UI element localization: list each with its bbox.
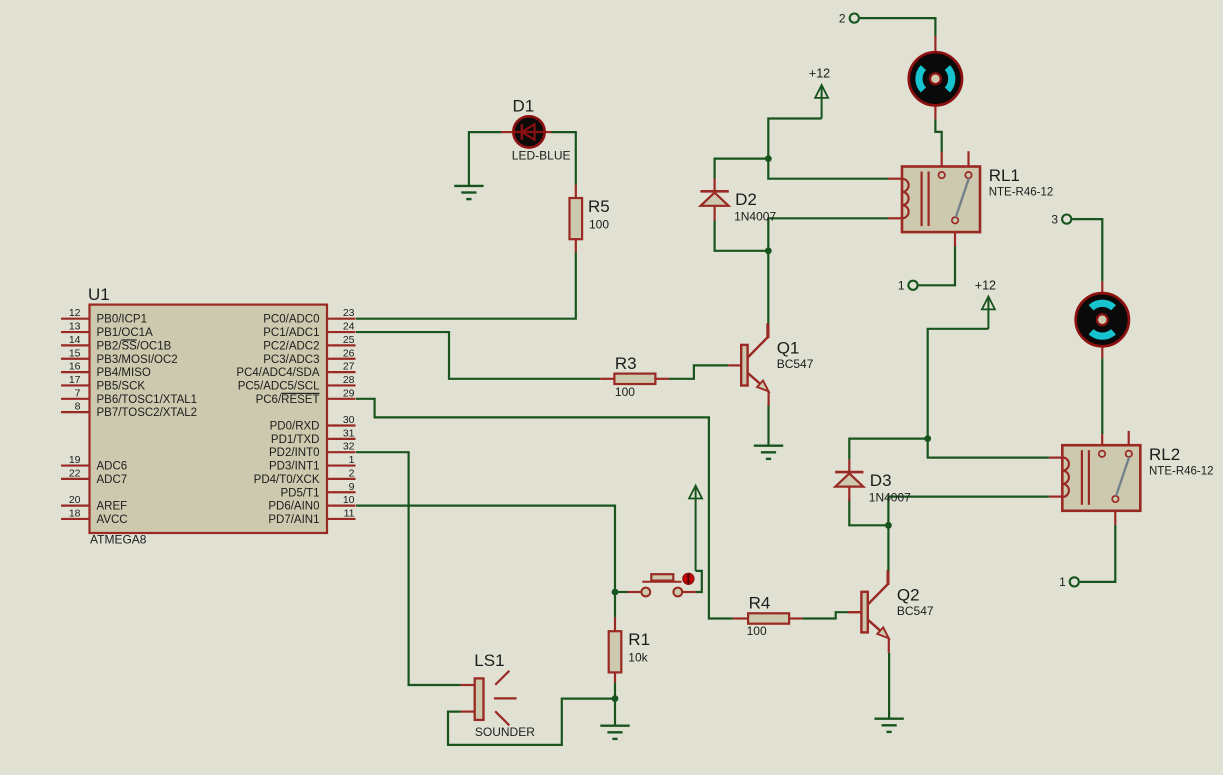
svg-text:12: 12	[69, 307, 81, 319]
svg-text:28: 28	[343, 374, 355, 386]
sounder LS1	[474, 651, 535, 739]
wire motor M2 bottom to RL2 pole	[1101, 358, 1103, 434]
U1 right pin 24	[263, 321, 355, 340]
U1 right pin 30	[270, 414, 356, 433]
svg-text:PC0/ADC0: PC0/ADC0	[263, 314, 319, 326]
svg-text:PD7/AIN1: PD7/AIN1	[268, 514, 319, 526]
svg-text:32: 32	[343, 441, 355, 453]
wire PD2 pin32 to sounder LS1	[356, 452, 461, 685]
RL2 common bottom stub	[1114, 502, 1116, 525]
wire R1 bottom to junction	[614, 683, 616, 699]
junction button/R1/PD6	[612, 589, 619, 596]
svg-text:PB7/TOSC2/XTAL2: PB7/TOSC2/XTAL2	[97, 407, 198, 419]
svg-text:25: 25	[343, 334, 355, 346]
svg-text:PB0/ICP1: PB0/ICP1	[97, 314, 148, 326]
wire RL2 common to terminal 1	[1080, 525, 1116, 582]
svg-text:PC4/ADC4/SDA: PC4/ADC4/SDA	[236, 367, 319, 379]
Q1 collector stub	[767, 324, 769, 338]
svg-text:26: 26	[343, 347, 355, 359]
svg-text:7: 7	[75, 387, 81, 399]
svg-text:PB3/MOSI/OC2: PB3/MOSI/OC2	[97, 354, 178, 366]
R3 pin stubs	[600, 378, 669, 380]
svg-text:10k: 10k	[628, 650, 648, 664]
svg-text:8: 8	[75, 401, 81, 413]
svg-text:PB2/SS/OC1B: PB2/SS/OC1B	[97, 340, 172, 352]
Q1 base stub	[728, 364, 741, 366]
diode D2	[700, 179, 776, 224]
U1 right pin 10	[268, 494, 355, 512]
U1 right pin 28	[238, 374, 356, 393]
wire node D to RL2 coil bottom	[888, 497, 1049, 526]
U1 left pin 17 PB5/SCK	[61, 374, 145, 393]
U1 left pin 20 AREF	[61, 494, 127, 512]
svg-text:PD4/T0/XCK: PD4/T0/XCK	[254, 474, 320, 486]
U1 right pin 26	[263, 347, 355, 366]
wire LED D1 cathode to ground	[469, 132, 501, 186]
svg-text:18: 18	[69, 507, 81, 519]
svg-text:16: 16	[69, 361, 81, 373]
U1 right pin 1	[269, 454, 356, 473]
terminal 2	[839, 11, 859, 25]
svg-text:SOUNDER: SOUNDER	[475, 725, 535, 739]
svg-text:PD3/INT1: PD3/INT1	[269, 461, 320, 473]
svg-text:19: 19	[69, 454, 81, 466]
button interactive marker	[683, 573, 694, 584]
svg-text:27: 27	[343, 361, 355, 373]
wire D2 anode to node B	[715, 220, 769, 251]
svg-text:24: 24	[343, 321, 355, 333]
U1 left pin 13 PB1/OC1A	[61, 321, 153, 340]
svg-text:2: 2	[349, 467, 355, 479]
wire node B to RL1 coil bottom	[768, 218, 888, 251]
diode D3	[835, 459, 911, 504]
svg-text:BC547: BC547	[777, 357, 814, 371]
svg-text:3: 3	[1051, 212, 1058, 226]
wire PD6 pin10 to node button/R1	[356, 506, 615, 592]
svg-text:PB1/OC1A: PB1/OC1A	[97, 327, 154, 339]
svg-text:1N4007: 1N4007	[734, 210, 776, 224]
wire D3 anode to node D	[849, 499, 888, 526]
svg-text:PC3/ADC3: PC3/ADC3	[263, 354, 319, 366]
svg-text:BC547: BC547	[897, 604, 934, 618]
resistor R5	[570, 197, 610, 239]
wire node A to D2 cathode	[715, 159, 769, 179]
wire junction to button left	[615, 591, 628, 593]
wire PC6 pin29 to R4	[356, 399, 733, 619]
RL1 NO stub	[967, 151, 969, 172]
motor M2 stubs	[1101, 281, 1103, 358]
motor M1 stubs	[934, 36, 936, 119]
U1 left pin 12 PB0/ICP1	[61, 307, 147, 326]
wire terminal 3 to motor M2 top	[1072, 219, 1102, 281]
junction node A	[765, 155, 772, 162]
junction node C	[924, 435, 931, 442]
svg-text:PC1/ADC1: PC1/ADC1	[263, 327, 319, 339]
U1 right pin 23	[263, 307, 355, 326]
svg-text:D2: D2	[735, 190, 757, 209]
RL2 NO stub	[1128, 431, 1130, 451]
motor M1	[909, 52, 962, 105]
U1 left pin 15 PB3/MOSI/OC2	[61, 347, 178, 366]
wire Q2 emitter to ground	[888, 653, 890, 719]
wire button right to +12 arrow	[696, 571, 702, 592]
wire PC0 pin23 to R5	[356, 252, 576, 318]
RL1 coil stubs	[888, 179, 902, 219]
junction node B	[765, 247, 772, 254]
svg-text:13: 13	[69, 321, 81, 333]
svg-text:R4: R4	[749, 594, 771, 613]
RL1 common bottom stub	[954, 224, 956, 247]
svg-text:PB5/SCK: PB5/SCK	[97, 380, 146, 392]
svg-text:15: 15	[69, 347, 81, 359]
U1 left pin 14 PB2/	[61, 334, 172, 353]
R1 pin stubs	[614, 617, 616, 682]
U1 right pin 27	[236, 361, 355, 380]
svg-text:PD1/TXD: PD1/TXD	[271, 434, 320, 446]
ground (LED)	[454, 186, 483, 199]
svg-text:29: 29	[343, 387, 355, 399]
U1 left pin 8 PB7/TOSC2/XTAL2	[61, 401, 197, 420]
svg-text:10: 10	[343, 494, 355, 506]
RL1 pole stub	[941, 152, 943, 172]
Q2 collector stub	[887, 571, 889, 585]
RL2 pole stub	[1101, 434, 1103, 451]
wire node D to Q2 collector	[887, 525, 889, 572]
U1 right pin 31	[271, 427, 356, 446]
ground (Q2)	[874, 719, 903, 732]
U1 left pin 22 ADC7	[61, 467, 127, 486]
terminal 3	[1051, 212, 1071, 226]
wire motor M1 bottom to RL1 pole	[935, 119, 941, 152]
svg-text:14: 14	[69, 334, 81, 346]
U1 right pin 2	[254, 467, 356, 486]
svg-text:AVCC: AVCC	[97, 514, 128, 526]
svg-text:1: 1	[1059, 575, 1066, 589]
Q1	[741, 323, 814, 406]
wire PC1 pin24 to R3	[356, 332, 600, 379]
svg-text:PC5/ADC5/SCL: PC5/ADC5/SCL	[238, 380, 320, 392]
button terminal stubs	[628, 591, 696, 593]
wire junction to R1 top	[614, 592, 616, 617]
motor M2	[1076, 293, 1129, 346]
svg-text:NTE-R46-12: NTE-R46-12	[1149, 465, 1214, 477]
R5 pin stubs	[575, 185, 577, 253]
svg-text:ATMEGA8: ATMEGA8	[90, 533, 147, 547]
svg-text:ADC7: ADC7	[97, 474, 128, 486]
svg-text:LED-BLUE: LED-BLUE	[512, 148, 571, 162]
svg-text:RL1: RL1	[989, 166, 1020, 185]
svg-text:+12: +12	[809, 67, 830, 81]
svg-text:PD0/RXD: PD0/RXD	[270, 421, 320, 433]
U1 right pin 29	[256, 387, 356, 406]
U1 right pin 11	[268, 507, 355, 526]
wire node C to D3 cathode	[849, 439, 927, 460]
svg-text:Q1: Q1	[777, 338, 800, 357]
terminal 1 (RL1)	[898, 279, 918, 293]
wire RL1 common to terminal 1	[918, 247, 955, 286]
LED D1 lead stubs	[501, 131, 552, 133]
svg-text:+12: +12	[975, 279, 996, 293]
svg-text:AREF: AREF	[97, 501, 128, 513]
power +12 (right)	[975, 279, 996, 329]
svg-text:31: 31	[343, 427, 355, 439]
wire terminal 2 to motor M1 top	[860, 18, 936, 36]
junction node D	[885, 522, 892, 529]
RL2	[1062, 445, 1213, 511]
svg-text:PD6/AIN0: PD6/AIN0	[268, 501, 319, 513]
svg-text:100: 100	[747, 624, 767, 638]
microcontroller U1 ATMEGA8 body	[88, 285, 327, 547]
ground (R1)	[600, 726, 629, 739]
resistor R3	[614, 354, 655, 399]
svg-text:RL2: RL2	[1149, 445, 1180, 464]
svg-text:9: 9	[349, 481, 355, 493]
U1 right pin 9	[281, 481, 356, 500]
RL2 coil stubs	[1049, 458, 1062, 497]
R4 pin stubs and wire jog to Q2 base	[733, 612, 862, 618]
svg-text:PD2/INT0: PD2/INT0	[269, 447, 320, 459]
wire node B to Q1 collector	[767, 251, 769, 325]
wire +12 second rail to RL2 coil top	[928, 329, 1049, 458]
U1 left pin 18 AVCC	[61, 507, 128, 526]
svg-text:PD5/T1: PD5/T1	[281, 487, 320, 499]
svg-text:2: 2	[839, 11, 846, 25]
wire Q1 emitter to ground	[767, 404, 769, 446]
junction R1 bottom	[612, 695, 619, 702]
svg-text:PB4/MISO: PB4/MISO	[97, 367, 151, 379]
ground (Q1)	[754, 446, 783, 459]
Q2	[861, 570, 934, 653]
terminal 1 (RL2)	[1059, 575, 1079, 589]
svg-text:NTE-R46-12: NTE-R46-12	[989, 187, 1054, 199]
U1 left pin 19 ADC6	[61, 454, 127, 473]
svg-text:D3: D3	[870, 471, 892, 490]
svg-text:PC2/ADC2: PC2/ADC2	[263, 340, 319, 352]
svg-text:11: 11	[344, 507, 355, 519]
svg-text:1: 1	[898, 279, 905, 293]
Q2 base stub	[848, 611, 861, 613]
svg-text:23: 23	[343, 307, 355, 319]
svg-text:D1: D1	[513, 97, 535, 116]
svg-text:1N4007: 1N4007	[869, 491, 911, 505]
push button	[641, 574, 682, 596]
U1 left pin 16 PB4/MISO	[61, 361, 151, 380]
power +12 (top)	[809, 67, 830, 119]
RL1	[902, 166, 1053, 232]
wire R1 bottom node to ground	[614, 699, 616, 726]
svg-text:LS1: LS1	[474, 651, 504, 670]
wire LED D1 anode to R5 top	[552, 132, 576, 185]
svg-text:U1: U1	[88, 285, 110, 304]
svg-text:100: 100	[589, 218, 609, 232]
U1 left pin 7 PB6/TOSC1/XTAL1	[61, 387, 197, 406]
svg-text:PB6/TOSC1/XTAL1: PB6/TOSC1/XTAL1	[97, 394, 198, 406]
svg-text:Q2: Q2	[897, 585, 920, 604]
resistor R4	[747, 594, 790, 638]
wire +12 rail to D2/RL1 coil top	[768, 119, 888, 179]
wire R3 to Q1 base	[669, 365, 728, 378]
svg-text:PC6/RESET: PC6/RESET	[256, 394, 320, 406]
svg-text:R1: R1	[628, 630, 650, 649]
svg-text:20: 20	[69, 494, 81, 506]
svg-text:100: 100	[615, 385, 635, 399]
svg-text:17: 17	[69, 374, 81, 386]
svg-text:22: 22	[69, 467, 81, 479]
svg-text:R3: R3	[615, 354, 637, 373]
U1 right pin 32	[269, 441, 356, 460]
power +12 arrow (button)	[689, 486, 702, 571]
svg-text:ADC6: ADC6	[97, 461, 128, 473]
svg-text:30: 30	[343, 414, 355, 426]
LED D1	[512, 97, 571, 163]
wire R1 bottom node to sounder return	[448, 699, 615, 745]
svg-text:1: 1	[349, 454, 355, 466]
sounder pin stubs	[461, 685, 475, 712]
U1 right pin 25	[263, 334, 355, 353]
svg-text:R5: R5	[588, 197, 610, 216]
resistor R1	[609, 630, 650, 672]
